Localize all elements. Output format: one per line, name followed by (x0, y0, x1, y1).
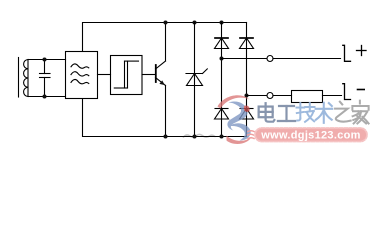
wire emitter down (165, 86, 167, 137)
bridge diode D3 bottom-left (215, 109, 229, 120)
watermark text 电 (259, 103, 275, 121)
node dot cap bottom (43, 95, 47, 99)
wire LC top (28, 59, 66, 61)
watermark text 之 (335, 102, 351, 122)
node dot rail-bridge-left (220, 21, 224, 25)
oscillator wave symbol (71, 64, 89, 84)
label L minus (343, 84, 364, 100)
bridge diode D4 top-right (240, 38, 254, 49)
capacitor C1 (40, 60, 51, 97)
wire output minus (247, 95, 268, 97)
node dot rail-zener-bottom (193, 135, 197, 139)
schmitt trigger block U2 (111, 56, 143, 95)
watermark text 工 (278, 106, 295, 121)
node dot rail-zener (193, 21, 197, 25)
hysteresis symbol (114, 61, 138, 88)
watermark text 家 (352, 101, 368, 124)
watermark logo (218, 95, 252, 144)
faint gray squiggle (184, 134, 216, 137)
bridge left branch wire (221, 23, 223, 137)
watermark text 术 (316, 103, 333, 123)
node dot rail-bridge-left-bottom (220, 135, 224, 139)
wire osc to schmitt (98, 74, 111, 76)
transistor Q1 (156, 61, 166, 86)
inductor L1 coil (24, 60, 28, 97)
wire schmitt to base (142, 74, 156, 76)
inductor chord line (27, 60, 29, 97)
node dot bridge left mid (220, 57, 224, 61)
wire collector up (165, 23, 167, 62)
wire resistor to L minus (323, 95, 342, 97)
bottom supply rail (83, 99, 247, 137)
wire to L plus (273, 58, 341, 60)
bridge diode D5 bottom-right (240, 109, 254, 120)
bridge diode D2 top-left (215, 38, 229, 49)
svg-text:www.dgjs123.com: www.dgjs123.com (260, 130, 360, 142)
wire to resistor (273, 95, 292, 97)
zener diode D1 (186, 23, 207, 137)
resistor R1 (292, 91, 323, 103)
terminal circle minus (267, 93, 273, 99)
watermark url pill (248, 128, 368, 142)
wire output plus (222, 58, 268, 60)
label L plus (343, 45, 366, 61)
wire LC bottom (28, 96, 66, 98)
watermark text 技 (296, 103, 314, 122)
sensing core bar (18, 58, 20, 98)
node dot rail-collector (164, 21, 168, 25)
oscillator block U1 (66, 52, 98, 99)
node dot rail-emitter (164, 135, 168, 139)
top supply rail (83, 23, 247, 52)
node dot cap top (43, 58, 47, 62)
terminal circle plus (267, 56, 273, 62)
node dot bridge right mid (245, 94, 249, 98)
bridge right branch wire (246, 23, 248, 137)
